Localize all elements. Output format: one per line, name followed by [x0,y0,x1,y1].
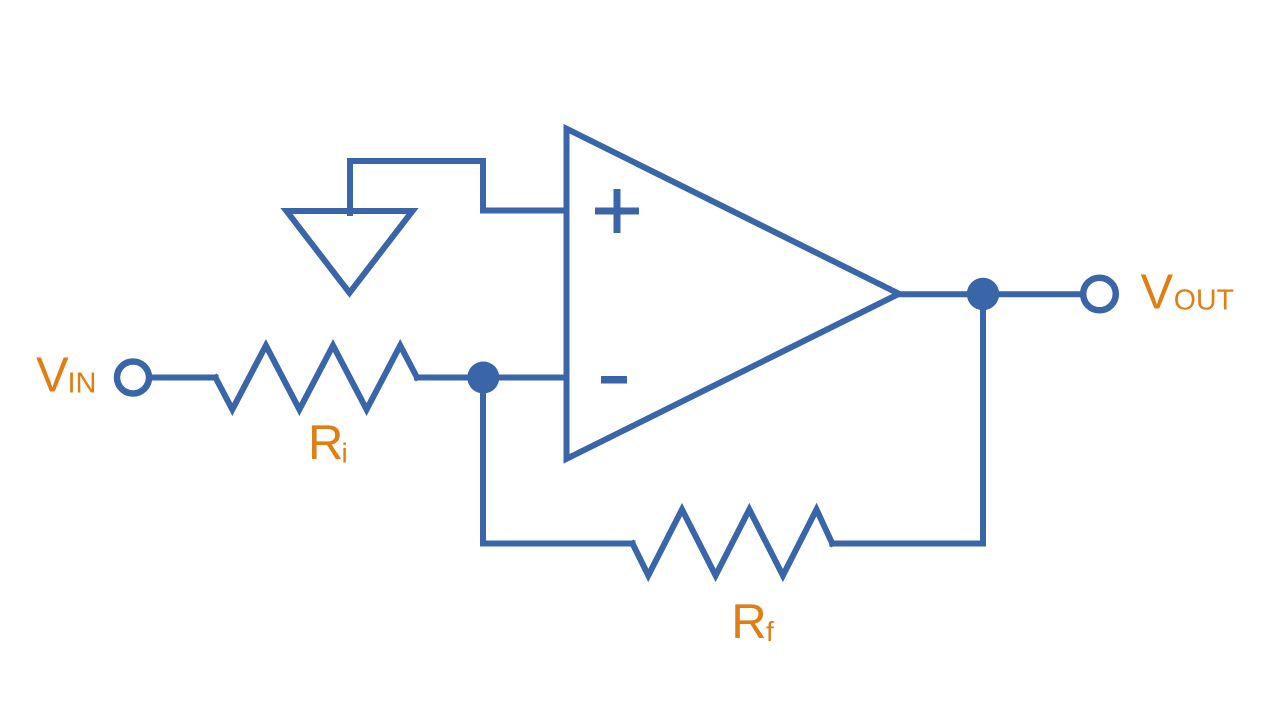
wire: feedback vertical right [980,294,986,543]
svg-text:OUT: OUT [1174,285,1234,317]
op-amp plus symbol [595,189,639,233]
terminal Vin [117,362,149,394]
op-amp minus symbol [601,376,627,384]
svg-text:f: f [766,616,774,647]
svg-text:R: R [308,416,343,470]
svg-text:i: i [342,437,348,468]
node: inverting input junction [467,362,499,394]
op-amp U1 [567,129,900,459]
wire: feedback bottom right [832,541,983,547]
wire: Ri to op-amp inverting input [417,375,564,381]
resistor Rf [633,510,833,576]
node: output junction [967,278,999,310]
wire: feedback bottom left [483,541,633,547]
svg-text:V: V [36,349,69,403]
svg-text:IN: IN [68,367,97,399]
svg-text:V: V [1141,266,1174,320]
resistor Ri [216,346,418,410]
wire: op-amp output to Vout terminal [899,291,1081,297]
terminal Vout [1083,278,1116,311]
svg-text:R: R [731,595,766,649]
wire: ground net to non-inverting input [350,161,564,213]
wire: Vin terminal to resistor Ri [150,375,216,381]
wire: feedback vertical left [480,378,486,544]
ground [287,211,413,293]
